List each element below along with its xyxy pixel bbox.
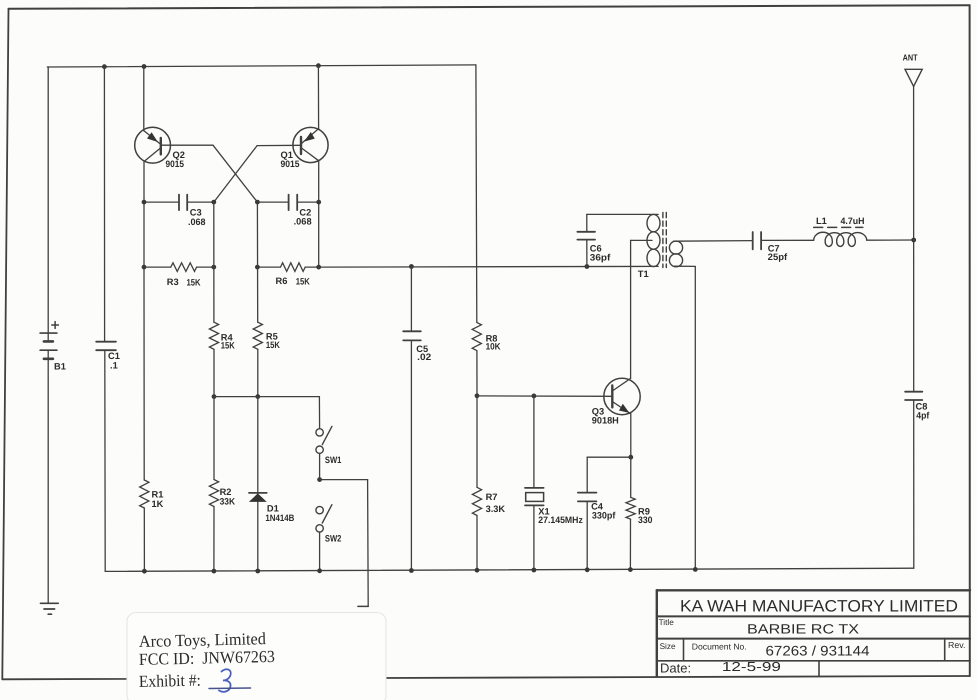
node R3 right: [211, 265, 216, 270]
node R3 left: [142, 265, 147, 270]
wire R8 bottom: [476, 351, 478, 396]
svg-text:67263 / 931144: 67263 / 931144: [766, 643, 870, 659]
wire Q3 emitter down: [630, 414, 632, 457]
svg-text:9015: 9015: [166, 159, 185, 169]
node top rail / C1: [102, 64, 107, 69]
capacitor C2: [288, 195, 290, 211]
transistor Q2: [135, 127, 171, 163]
svg-text:25pf: 25pf: [768, 252, 788, 262]
inductor L1: [814, 232, 867, 246]
svg-text:FCC ID: JNW67263: FCC ID: JNW67263: [139, 647, 275, 669]
wire R6 right lead: [305, 266, 319, 268]
wire C2 left: [257, 201, 288, 203]
wire R5 top: [256, 202, 258, 322]
svg-text:ANT: ANT: [903, 53, 919, 63]
node ground rail / C4: [585, 567, 590, 572]
title block divider Date: [818, 661, 820, 676]
svg-text:SW2: SW2: [325, 534, 342, 544]
svg-text:4.7uH: 4.7uH: [841, 216, 865, 226]
svg-text:KA WAH MANUFACTORY LIMITED: KA WAH MANUFACTORY LIMITED: [680, 598, 958, 616]
capacitor C3: [178, 195, 180, 211]
wire Q2 emitter from rail: [143, 67, 145, 131]
antenna ANT: [905, 69, 922, 86]
label B1 plus sign: [52, 324, 59, 326]
node ground rail / R2: [212, 569, 217, 574]
wire R7 bottom: [476, 516, 478, 571]
svg-text:3.3K: 3.3K: [486, 504, 506, 514]
node ground rail / D1: [255, 569, 260, 574]
node Q3 base / R8: [475, 393, 480, 398]
title block outer box: [657, 589, 970, 591]
switch SW1: [316, 429, 323, 436]
svg-text:9015: 9015: [281, 159, 300, 169]
resistor R4: [209, 322, 218, 349]
wire battery top: [47, 67, 49, 341]
wire C5 top: [410, 267, 412, 332]
resistor R1: [140, 480, 149, 508]
wire Q2 base: [161, 144, 213, 146]
svg-text:.068: .068: [294, 217, 312, 227]
wire X1 bottom: [533, 505, 535, 570]
svg-text:12-5-99: 12-5-99: [722, 659, 781, 674]
wire emitter node to C4: [587, 456, 631, 458]
wire C1 bottom: [104, 350, 106, 571]
wire R2 bottom: [213, 507, 215, 572]
svg-text:Date:: Date:: [660, 660, 691, 675]
resistor R3: [171, 263, 197, 272]
transistor Q1: [293, 127, 328, 162]
wire Q1 base: [257, 144, 301, 146]
wire R1 bottom: [143, 508, 145, 571]
svg-text:Exhibit #:: Exhibit #:: [139, 671, 201, 691]
svg-text:15K: 15K: [296, 276, 310, 286]
wire T1 secondary bottom: [675, 265, 696, 267]
wire antenna down: [913, 86, 915, 391]
wire ground bottom rail: [105, 568, 914, 571]
wire V+ top rail: [47, 65, 476, 67]
wire T1 tap: [631, 239, 652, 241]
svg-text:36pf: 36pf: [590, 253, 611, 263]
title block divider Size: [683, 639, 685, 661]
svg-text:15K: 15K: [187, 277, 201, 287]
wire C1 top: [103, 67, 105, 342]
node R6 left: [255, 265, 260, 270]
wire C6 bottom: [586, 240, 588, 267]
wire V+ down to R8: [475, 65, 478, 323]
capacitor C8: [905, 391, 922, 393]
node SW junction: [317, 477, 322, 482]
node ground rail / R1: [142, 569, 147, 574]
wire Q3 collector up to T1 tap: [630, 240, 632, 378]
node antenna line: [911, 238, 916, 243]
page border right: [969, 5, 971, 676]
node ground rail / C5: [409, 568, 414, 573]
resistor R9: [626, 497, 635, 519]
page border top: [9, 5, 970, 9]
svg-text:27.145MHz: 27.145MHz: [538, 515, 583, 525]
svg-text:T1: T1: [638, 269, 649, 279]
wire C2 right: [297, 201, 319, 203]
svg-text:SW1: SW1: [325, 455, 342, 465]
svg-text:1K: 1K: [152, 499, 164, 509]
title block row line 2: [657, 638, 970, 640]
transformer T1 primary winding: [647, 214, 660, 231]
sticker background: [127, 613, 386, 700]
node C3 left: [142, 200, 147, 205]
svg-text:R3: R3: [167, 277, 179, 287]
node mid rail / C5: [409, 264, 414, 269]
wire Q1 emitter from rail: [317, 66, 319, 129]
wire Q2 collector down: [143, 161, 145, 267]
wire Q3 base: [477, 395, 612, 397]
wire C5 bottom: [410, 340, 412, 570]
svg-text:33K: 33K: [220, 497, 236, 507]
node C3 right: [211, 200, 216, 205]
svg-text:15K: 15K: [221, 341, 235, 351]
resistor R5: [253, 322, 262, 349]
svg-text:330pf: 330pf: [592, 511, 616, 521]
svg-text:1N414B: 1N414B: [265, 513, 294, 523]
svg-text:BARBIE RC TX: BARBIE RC TX: [747, 622, 859, 637]
title block divider Rev: [944, 639, 946, 661]
node top rail / Q1 emitter: [316, 63, 321, 68]
svg-text:.068: .068: [188, 217, 206, 227]
node R6 right: [316, 265, 321, 270]
wire R2 top: [213, 397, 215, 480]
svg-text:Title: Title: [659, 618, 675, 627]
node X1 top: [532, 394, 537, 399]
wire R7 top: [476, 396, 478, 488]
capacitor C5: [403, 330, 421, 332]
resistor R8: [472, 322, 481, 350]
resistor R7: [472, 487, 481, 515]
wire SW1 to node: [319, 453, 321, 479]
node ground rail / R9: [628, 567, 633, 572]
node ground rail / SW2: [317, 568, 322, 573]
svg-text:R6: R6: [276, 276, 288, 286]
title block row line 3: [657, 660, 970, 662]
capacitor C6: [577, 231, 595, 233]
svg-text:C3: C3: [190, 208, 202, 218]
wire C3 right: [187, 201, 214, 203]
sticker underline: [209, 687, 251, 690]
wire R4 bottom to node: [213, 349, 215, 396]
transformer T1 secondary winding: [669, 241, 682, 254]
wire SW node to ground stub: [320, 479, 368, 481]
page border left: [2, 9, 8, 680]
svg-text:9018H: 9018H: [592, 416, 619, 426]
sticker text Exhibit #:: [139, 671, 201, 691]
svg-text:.02: .02: [417, 352, 431, 362]
wire R1 top: [143, 267, 145, 480]
crystal X1: [525, 487, 544, 489]
node ground rail / X1: [532, 568, 537, 573]
node C2 right: [316, 200, 321, 205]
wire X1 top: [533, 396, 535, 488]
svg-text:15K: 15K: [266, 340, 280, 350]
switch SW2: [316, 506, 323, 513]
svg-text:Document No.: Document No.: [692, 642, 747, 652]
diode D1: [249, 492, 267, 494]
inductor L1 core dashes: [814, 226, 863, 228]
svg-text:10K: 10K: [486, 342, 501, 352]
ground stub bar: [358, 605, 368, 607]
wire battery bottom: [47, 350, 49, 603]
wire R9 top: [630, 457, 632, 497]
wire SW1 top: [318, 397, 320, 429]
svg-text:B1: B1: [54, 362, 66, 372]
svg-text:330: 330: [638, 515, 653, 525]
wire C6 top link: [587, 213, 658, 215]
wire R6 left lead: [257, 266, 280, 268]
node top rail / Q2 emitter: [142, 64, 147, 69]
wire R3 left lead: [144, 266, 171, 268]
wire R9 bottom: [629, 519, 631, 570]
wire mid rail to transformer: [319, 265, 659, 268]
wire R4 top: [213, 202, 215, 322]
node mid rail / C6: [585, 264, 590, 269]
node ground rail / T1: [693, 567, 698, 572]
capacitor C1: [96, 341, 116, 343]
wire L1 to antenna: [867, 239, 914, 241]
capacitor C7: [752, 232, 754, 249]
wire R3 right lead: [197, 266, 214, 268]
svg-text:R1: R1: [152, 490, 164, 500]
page border bottom: [2, 676, 970, 679]
resistor R6: [281, 263, 306, 272]
svg-text:Rev.: Rev.: [948, 640, 965, 650]
wire key-line node row: [214, 396, 319, 398]
transformer T1 core: [662, 213, 664, 268]
svg-text:4pf: 4pf: [916, 410, 930, 420]
node R4 / R2: [212, 394, 217, 399]
ground B1: [41, 602, 59, 604]
wire cross-couple Q1 base to C3: [214, 146, 257, 203]
sticker text Arco Toys, Limited: [139, 629, 267, 651]
battery B1: [40, 332, 57, 334]
capacitor C4: [578, 492, 597, 494]
wire Q2 collector to C3: [144, 201, 179, 203]
svg-text:L1: L1: [816, 216, 827, 226]
wire C8 bottom: [913, 400, 915, 568]
svg-text:R7: R7: [486, 492, 498, 502]
sticker text FCC ID: JNW67263: [139, 647, 275, 669]
resistor R2: [209, 480, 218, 507]
svg-text:.1: .1: [110, 361, 118, 371]
wire T1 secondary top to C7: [674, 240, 753, 243]
wire C7 to L1: [761, 239, 814, 241]
node Q3 emitter junction: [628, 455, 633, 460]
node ground rail / R7: [475, 568, 480, 573]
node C2 left: [255, 200, 260, 205]
title block row line 1: [657, 615, 970, 617]
wire cross-couple Q2 base to C2: [213, 145, 257, 202]
svg-text:R2: R2: [220, 487, 232, 497]
wire R5 bottom to node: [257, 349, 259, 396]
wire C4 bottom: [586, 501, 588, 570]
wire Q1 collector down: [318, 161, 320, 267]
wire D1 vertical: [257, 397, 259, 571]
node R5 / D1: [255, 394, 260, 399]
transistor Q3: [604, 378, 640, 414]
wire SW2 bottom: [319, 532, 321, 571]
svg-text:Size: Size: [660, 642, 676, 651]
sticker handwritten 3: [219, 669, 231, 692]
